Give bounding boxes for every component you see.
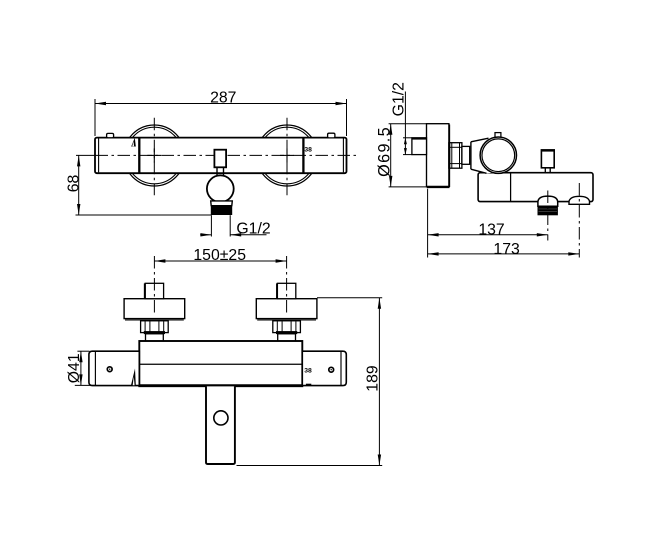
svg-text:G1/2: G1/2 <box>391 82 408 116</box>
svg-text:38: 38 <box>304 367 312 374</box>
svg-text:Ø69.5: Ø69.5 <box>376 126 394 177</box>
svg-text:137: 137 <box>478 221 504 238</box>
svg-text:150±25: 150±25 <box>193 247 246 264</box>
svg-text:173: 173 <box>493 241 520 258</box>
svg-text:G1/2: G1/2 <box>236 220 270 237</box>
svg-text:38: 38 <box>304 147 312 154</box>
svg-text:Ø41: Ø41 <box>66 353 83 383</box>
svg-text:68: 68 <box>65 175 82 193</box>
svg-text:287: 287 <box>210 89 236 106</box>
svg-text:189: 189 <box>365 365 382 392</box>
